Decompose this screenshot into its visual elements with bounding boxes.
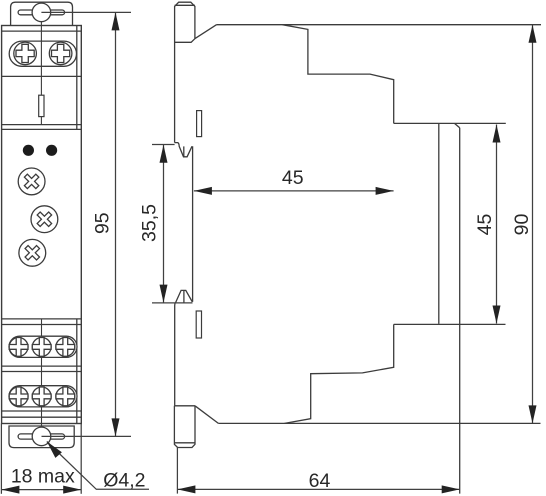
dim 64 line — [177, 488, 459, 490]
side view recessed front edge — [192, 146, 194, 301]
arrow 35.5 down — [160, 285, 168, 303]
front view divider y124.6 — [2, 124, 82, 126]
dim 95 top extension — [41, 11, 131, 13]
side view top clip tab bottom — [175, 39, 195, 43]
terminal row 1 stadium — [9, 336, 77, 357]
dim 35.5 bottom extension — [152, 302, 193, 304]
front view bottom mounting tab — [9, 426, 74, 448]
svg-text:90: 90 — [511, 214, 533, 236]
arrow 64 right — [442, 485, 460, 493]
side view upper V notch — [175, 143, 192, 157]
svg-text:35,5: 35,5 — [139, 204, 161, 242]
front view top keyhole slot — [18, 10, 65, 15]
svg-text:45: 45 — [282, 167, 304, 189]
front view inner right vertical lower — [76, 319, 78, 424]
potentiometer 1 X — [20, 170, 43, 193]
dim dia42 leader — [47, 442, 149, 490]
side view lower rear step — [285, 324, 394, 423]
front view bottom keyhole slot — [18, 434, 65, 439]
dim 35.5 top extension — [152, 144, 175, 146]
side view rear top step — [282, 25, 393, 124]
terminal row 1 screw C — [56, 338, 75, 357]
LED right — [46, 145, 57, 156]
front view fuse rectangle — [39, 95, 44, 116]
arrow 18max left — [1, 486, 19, 494]
front view top mounting tab — [11, 2, 73, 25]
top terminal stadium — [9, 41, 76, 66]
side view bottom edge and 90 extension — [218, 422, 540, 424]
potentiometer 1 circle — [18, 168, 45, 195]
potentiometer 3 X — [21, 241, 44, 264]
front view center line upper — [40, 22, 42, 96]
top terminal screw right circle — [49, 42, 72, 65]
arrow 45right down — [493, 306, 501, 324]
potentiometer 3 circle — [19, 239, 46, 266]
front view center line below fuse — [40, 117, 42, 125]
arrow dim95 down — [112, 418, 120, 436]
front view bottom keyhole circle — [32, 427, 51, 446]
side view top clip tab — [175, 2, 195, 142]
front view horizontal line y31 — [2, 30, 82, 32]
side view lower side slot — [196, 311, 201, 338]
arrow 45top left — [194, 187, 212, 195]
potentiometer 2 X — [33, 208, 56, 231]
dim 45 top line — [194, 190, 394, 192]
dim 64 left extension — [176, 448, 178, 494]
side view upper V notch inner line — [183, 146, 185, 156]
side view clip pawl inner line — [183, 290, 185, 302]
side view rear column right chamfer — [455, 123, 460, 127]
dim 95 bottom extension — [42, 435, 132, 437]
front view divider y129.4 — [2, 128, 82, 130]
front view divider y371.5 — [2, 371, 82, 373]
side view clip foot — [174, 406, 195, 448]
terminal row 1 screw A — [9, 338, 28, 357]
side view bottom front horizontal — [174, 405, 195, 407]
arrow 35.5 up — [160, 145, 168, 163]
front view divider y76 — [2, 75, 82, 77]
arrow 90 up — [529, 25, 537, 43]
side view bottom diagonal — [195, 406, 218, 424]
front view divider y411 — [2, 410, 82, 412]
potentiometer 2 circle — [31, 206, 58, 233]
terminal row 2 screw A — [9, 387, 28, 406]
top terminal screw right cross — [52, 44, 70, 62]
arrow 90 down — [529, 405, 537, 423]
front view divider y324.5 — [2, 324, 82, 326]
side view rear column left edge — [438, 123, 440, 324]
arrow 45top right — [376, 187, 394, 195]
terminal row 2 screw C — [56, 387, 75, 406]
dim 95 line — [115, 12, 117, 436]
terminal row 2 stadium — [9, 386, 77, 407]
front view divider y318.9 — [2, 318, 82, 320]
side view upper ledge and 45 extension — [394, 122, 506, 124]
arrow 45right up — [493, 125, 501, 143]
terminal row 1 screw B — [32, 338, 51, 357]
terminal row 2 screw B — [32, 387, 51, 406]
arrow 18max right — [63, 486, 81, 494]
dim 45 right line — [496, 125, 498, 324]
front view body outline — [2, 26, 82, 424]
front view top keyhole circle — [32, 3, 51, 22]
svg-text:95: 95 — [91, 212, 113, 234]
arrow 64 left — [177, 485, 195, 493]
dim 18max line — [1, 489, 81, 491]
side view clip pawl — [175, 290, 192, 303]
side view top clip tab inner edge — [175, 4, 195, 6]
dim 90 line — [532, 25, 534, 424]
top terminal screw left circle — [14, 42, 37, 65]
dim 18max right extension — [80, 424, 82, 494]
top terminal screw left cross — [16, 44, 34, 62]
front view inner right vertical upper — [76, 26, 78, 130]
arrow dia42 — [47, 442, 62, 458]
side view upper side slot — [197, 111, 202, 137]
side view top edge and 90 extension — [217, 24, 542, 26]
side view top front diagonal — [195, 25, 217, 39]
side view lower front edge — [174, 303, 176, 406]
arrow dim95 up — [112, 12, 120, 30]
dim 35.5 line — [163, 145, 165, 303]
dim 18max left extension — [0, 424, 2, 494]
svg-text:45: 45 — [474, 214, 496, 236]
svg-text:Ø4,2: Ø4,2 — [103, 470, 145, 492]
front view divider y366.1 — [2, 365, 82, 367]
side view rear edge and 64 extension — [459, 128, 461, 494]
front view center line lower — [41, 319, 43, 436]
side view lower ledge and 45 extension — [394, 323, 506, 325]
svg-text:18 max: 18 max — [11, 466, 75, 488]
side view clip foot inner line — [174, 442, 195, 444]
LED left — [23, 145, 34, 156]
front view divider y417.2 — [2, 416, 82, 418]
svg-text:64: 64 — [309, 470, 331, 492]
